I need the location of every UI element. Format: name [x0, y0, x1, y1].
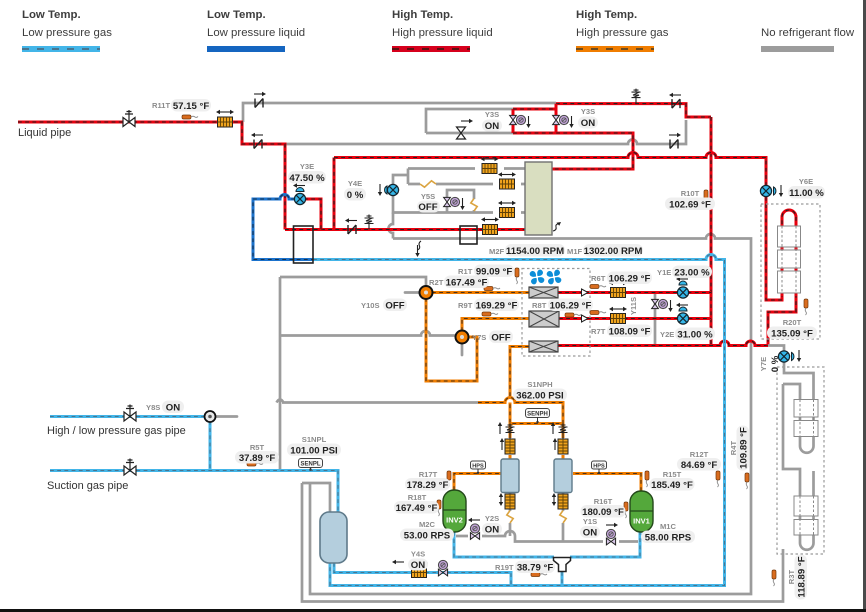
label R12T [677, 450, 721, 471]
oil zigzag at Y5S loop [471, 199, 477, 212]
svg-text:R15T: R15T [663, 470, 682, 479]
pipe: liquid row B (HX2 to manifold) [559, 317, 711, 320]
capillary on liquid main [483, 225, 498, 235]
label S1NPL [287, 435, 341, 457]
svg-text:INV2: INV2 [446, 516, 463, 525]
label R1T [458, 265, 514, 278]
svg-text:S1NPH: S1NPH [527, 380, 552, 389]
check valve on gray second line (arrow right) [670, 140, 678, 149]
svg-text:M2F: M2F [489, 247, 505, 256]
sensor R2T/R9T area: R2T sensor [484, 287, 500, 291]
solenoid Y3S-2 on red vertical x556 [553, 115, 574, 128]
service valve V2 (high/low gas pipe) [124, 405, 136, 422]
svg-text:Y5S: Y5S [421, 192, 435, 201]
wire: subcool line 2 [408, 183, 525, 186]
wire: inner gray box (oil loop) [426, 109, 513, 133]
label Y7S OFF [472, 331, 513, 344]
sensor R9T [482, 312, 498, 316]
pipe: HX3 feed drop to suction header [510, 347, 529, 399]
svg-text:Y7S: Y7S [472, 333, 486, 342]
wire: Y11S bypass between liquid rows [654, 294, 657, 344]
right page border [863, 0, 866, 612]
svg-text:84.69 °F: 84.69 °F [681, 460, 718, 471]
svg-text:57.15 °F: 57.15 °F [173, 101, 210, 112]
svg-text:SENPL: SENPL [300, 462, 320, 468]
pipe: Y3S box verticals and bottom [513, 104, 633, 169]
label Y8S ON [146, 401, 184, 414]
svg-text:ON: ON [166, 403, 180, 414]
oil zigzag below separator 1 [507, 511, 513, 524]
capillary below separator 1 [505, 494, 515, 509]
svg-text:High Temp.: High Temp. [392, 9, 453, 21]
wire: lower coil tubes group1 [783, 384, 814, 453]
svg-text:OFF: OFF [418, 202, 437, 213]
svg-text:R8T: R8T [532, 301, 547, 310]
check valve on liquid main (arrow left) [348, 225, 356, 234]
pipe: Y3E subcool branch [304, 199, 321, 230]
pipe: Y7S up to HX2 [462, 319, 529, 332]
svg-text:M1C: M1C [660, 522, 677, 531]
svg-text:S1NPL: S1NPL [302, 435, 327, 444]
legend item: high temp / high pressure gas [576, 9, 669, 52]
junction fillet on left riser [277, 400, 284, 403]
label Y10S OFF [361, 299, 407, 312]
wire: Y5S bypass loop [447, 190, 474, 213]
label R5T [235, 443, 279, 464]
lower outdoor coil dashed box [777, 367, 824, 554]
solenoid Y2S on oil line [470, 524, 479, 540]
check valve top gray [255, 99, 263, 108]
flow triangle row B [582, 315, 589, 322]
capillary subcool line1 [482, 164, 497, 174]
sensor R4T (rotated) [745, 473, 749, 489]
oil separator 1 [501, 459, 519, 493]
receiver (liquid receiver tall rect) [294, 226, 314, 263]
label R16T [581, 497, 626, 518]
wire: Y7S bottom stub [461, 343, 464, 355]
wire: Y8S junction stub [216, 415, 237, 418]
legend item: high temp / high pressure liquid [392, 9, 493, 52]
capillary subcool line2 [500, 179, 515, 189]
label Y4S ON [408, 550, 428, 572]
pipe: liquid main through receiver to subcooler [285, 228, 525, 231]
label R2T [429, 276, 489, 289]
svg-text:118.89 °F: 118.89 °F [797, 556, 808, 597]
wire: R3T return line from lower coil [302, 483, 783, 602]
sensor R5T [247, 462, 263, 466]
pipe: high/low pressure gas pipe [50, 415, 210, 418]
svg-text:INV1: INV1 [633, 517, 650, 526]
capillary row A [611, 288, 626, 298]
label Y3S-1 [482, 110, 502, 132]
svg-text:R11T: R11T [152, 101, 171, 110]
compressor INV2 [443, 490, 466, 532]
expansion valve Y2E [676, 303, 689, 324]
expansion valve Y3E [293, 183, 306, 204]
label Y6E [788, 177, 825, 199]
label Y5S [417, 192, 440, 213]
svg-text:1154.00 RPM: 1154.00 RPM [506, 246, 564, 257]
pipe: drop to lower header [242, 122, 285, 230]
pipe: strainer drop [561, 572, 564, 586]
expansion valve Y4E [378, 184, 399, 196]
wire: oil return line INV2 [456, 531, 638, 542]
svg-text:Y3S: Y3S [581, 107, 595, 116]
svg-text:23.00 %: 23.00 % [674, 268, 710, 279]
lower coil finned sections group1 [794, 400, 818, 437]
svg-text:No refrigerant flow: No refrigerant flow [761, 27, 855, 39]
lower coil finned sections group2 [794, 496, 818, 535]
svg-text:58.00 RPS: 58.00 RPS [645, 533, 692, 544]
svg-text:106.29 °F: 106.29 °F [550, 301, 592, 312]
svg-text:Y4S: Y4S [411, 550, 425, 559]
svg-text:31.00 %: 31.00 % [677, 330, 713, 341]
heat exchanger HX1 [529, 287, 558, 298]
svg-text:ON: ON [411, 560, 425, 571]
wire: gray suction header to SENPH [282, 401, 478, 404]
label Y3E [288, 162, 326, 184]
label R11T value [152, 99, 211, 112]
oil zigzag below separator 2 [560, 511, 566, 524]
pipe: suction header + SENPH loop [478, 398, 563, 424]
bottom page border [0, 609, 866, 612]
svg-text:R16T: R16T [594, 497, 613, 506]
svg-text:R12T: R12T [690, 450, 709, 459]
legend item: low temp / low pressure gas [22, 9, 112, 52]
svg-text:HPS: HPS [593, 463, 605, 469]
svg-text:R19T: R19T [495, 563, 514, 572]
compressor INV1 [630, 491, 653, 532]
label R18T [394, 493, 439, 514]
pipe: left vertical into liquid main [333, 158, 336, 230]
svg-text:ON: ON [581, 118, 595, 129]
svg-text:Y1E: Y1E [657, 268, 671, 277]
upper coil finned sections [778, 226, 801, 293]
svg-text:High pressure gas: High pressure gas [576, 27, 669, 39]
heat exchanger HX3 [529, 341, 558, 352]
svg-text:0 %: 0 % [347, 190, 364, 201]
svg-text:Liquid pipe: Liquid pipe [18, 127, 71, 139]
label R3T rotated [787, 569, 796, 584]
oil separator 2 [554, 459, 572, 493]
pipe: Y10S to HX1 [432, 291, 529, 294]
svg-text:ON: ON [583, 528, 597, 539]
label R20T [767, 318, 817, 340]
svg-text:Y2S: Y2S [485, 514, 499, 523]
sensor R18T [437, 500, 441, 516]
sensor R8T [565, 313, 581, 317]
capillary on Y4S line [412, 568, 427, 578]
svg-text:R18T: R18T [408, 493, 427, 502]
wire: Y10S left stub [405, 291, 420, 294]
service port on liquid main [365, 215, 374, 230]
accumulator vessel [320, 512, 347, 563]
pipe: liquid row C / bottom red main [558, 341, 768, 346]
label M2F RPM [489, 244, 565, 257]
svg-text:R5T: R5T [250, 443, 265, 452]
svg-text:R17T: R17T [419, 470, 438, 479]
label R7T [591, 325, 652, 338]
check valve on red drop line (arrow left) [254, 140, 262, 149]
svg-text:High pressure liquid: High pressure liquid [392, 27, 493, 39]
sensor R15T [645, 471, 649, 487]
sensor R6T [590, 285, 606, 289]
service port on red top bypass [632, 89, 641, 104]
svg-text:169.29 °F: 169.29 °F [476, 301, 518, 312]
solenoid Y11S [652, 299, 673, 312]
solenoid Y4S on accumulator line [438, 560, 447, 576]
svg-text:SENPH: SENPH [527, 412, 548, 418]
svg-text:Low Temp.: Low Temp. [207, 9, 266, 21]
pipe: connector between gas pipes [209, 421, 212, 471]
sensor R10T [704, 190, 708, 206]
label Y4E [344, 179, 366, 201]
svg-text:Y3S: Y3S [485, 110, 499, 119]
gas shutoff bowtie on inner box bottom [457, 119, 474, 139]
heat exchanger HX2 [529, 311, 559, 327]
label S1NPH [513, 380, 567, 402]
label R17T [405, 470, 450, 491]
service port above separator 1 [506, 424, 515, 439]
capillary subcool line3 [500, 208, 515, 218]
pipe: INV2 discharge [454, 474, 501, 491]
svg-text:Y4E: Y4E [348, 179, 362, 188]
svg-text:185.49 °F: 185.49 °F [651, 480, 693, 491]
svg-text:R6T: R6T [591, 274, 606, 283]
label R9T [458, 299, 519, 312]
wire: Y4E drop across red main [389, 213, 394, 239]
svg-text:R9T: R9T [458, 301, 473, 310]
svg-text:Low Temp.: Low Temp. [22, 9, 81, 21]
check valve on red top bypass (arrow left) [672, 99, 680, 108]
sensor R3T (rotated) [772, 570, 776, 586]
svg-text:M2C: M2C [419, 520, 436, 529]
upper outdoor coil dashed box [761, 204, 820, 339]
sensor R7T [590, 311, 606, 315]
expansion valve Y1E [676, 277, 689, 298]
svg-text:Y3E: Y3E [300, 162, 314, 171]
svg-text:M1F: M1F [567, 247, 583, 256]
svg-text:Y6E: Y6E [799, 177, 813, 186]
pipe: INV1 suction [570, 531, 640, 557]
wire: long gray return under subcooler to right side drop [310, 234, 751, 594]
fan F1 [530, 270, 545, 285]
label R19T [495, 561, 555, 574]
pipe: accumulator outlet / Y4S line [334, 563, 511, 586]
4-way valve Y10S [420, 286, 433, 299]
fan F2 [547, 270, 562, 285]
svg-text:106.29 °F: 106.29 °F [609, 274, 651, 285]
label Y7E rotated [759, 357, 768, 371]
4-way valve Y7S [456, 331, 469, 344]
svg-text:38.79 °F: 38.79 °F [517, 563, 554, 574]
wire: Y4E subcool circuit upper [393, 169, 525, 186]
svg-text:Suction gas pipe: Suction gas pipe [47, 480, 128, 492]
label Y3S-2 [578, 107, 598, 129]
wire: lower coil tubes group2 [783, 516, 814, 553]
label M2C [400, 520, 454, 542]
suction strainer funnel [554, 558, 571, 572]
tag HPS 1 [471, 461, 486, 474]
svg-text:ON: ON [485, 121, 499, 132]
label Y1E [657, 266, 712, 279]
tag SENPL [299, 459, 323, 471]
legend item: low temp / low pressure liquid [207, 9, 305, 52]
pipe: drops to oil separators [510, 424, 563, 460]
wire: separator 1 oil drop [509, 493, 512, 537]
svg-text:Y2E: Y2E [660, 330, 674, 339]
capillary above separator 2 [558, 439, 568, 454]
subcooler plate HX (green) [525, 162, 552, 235]
pipe: Y10S down and over to Y7S [426, 298, 477, 381]
wire: top gray header line [243, 103, 556, 122]
oil zigzag on line2 [420, 181, 436, 187]
sensor R11T [182, 115, 198, 119]
svg-text:Y1S: Y1S [583, 517, 597, 526]
label Y2S ON [482, 514, 502, 536]
svg-text:High / low pressure gas pipe: High / low pressure gas pipe [47, 425, 186, 437]
svg-text:Y7E: Y7E [759, 357, 768, 371]
solenoid Y3S-1 on red vertical x513 [510, 115, 531, 128]
pipe: main discharge header y157.5 [334, 153, 766, 186]
sensor R19T [531, 573, 547, 577]
wire: Y7E branch to lower coil [768, 346, 814, 401]
svg-text:Y8S: Y8S [146, 403, 160, 412]
pipe: INV1 discharge [573, 474, 641, 492]
wire: gray line to Y7S left with jump over orange [280, 331, 456, 336]
pipe: liquid pipe inlet [18, 121, 243, 124]
capillary below separator 2 [558, 494, 568, 509]
label M1C [641, 522, 695, 544]
solenoid Y5S [444, 197, 465, 210]
sensor R16T [624, 502, 628, 518]
pipe: low pressure gas long line [313, 255, 725, 586]
flow triangle row A [582, 289, 589, 296]
svg-text:47.50 %: 47.50 % [289, 173, 325, 184]
service valve V3 (suction pipe) [124, 459, 136, 476]
svg-text:HPS: HPS [472, 463, 484, 469]
capillary above separator 1 [505, 439, 515, 454]
svg-text:167.49 °F: 167.49 °F [396, 503, 438, 514]
label R10T [665, 189, 715, 211]
svg-text:OFF: OFF [385, 301, 404, 312]
label Y1S ON [580, 517, 600, 539]
sensor R12T [716, 471, 720, 487]
junction circle Y8S line [205, 411, 216, 422]
svg-text:Y10S: Y10S [361, 301, 380, 310]
label Y2E [660, 328, 715, 341]
svg-text:High Temp.: High Temp. [576, 9, 637, 21]
pipe: upper coil tubes [782, 210, 796, 296]
svg-text:R2T: R2T [429, 278, 444, 287]
svg-text:R20T: R20T [783, 318, 802, 327]
wire: separator 2 oil drop [562, 493, 565, 542]
svg-text:Low pressure liquid: Low pressure liquid [207, 27, 305, 39]
svg-text:102.69 °F: 102.69 °F [669, 200, 711, 211]
pipe: liquid row A (HX1 to manifold) [558, 291, 711, 294]
pipe: receiver circuit box [253, 195, 313, 260]
wire: gray line to Y10S top [280, 277, 426, 286]
svg-text:0 %: 0 % [770, 355, 781, 372]
wire: subcool line 3 [393, 196, 525, 213]
wire: left gray riser column [279, 277, 282, 469]
label R6T [591, 272, 652, 285]
sensor R20T [804, 299, 808, 315]
sight glass rect on liquid main [460, 226, 477, 244]
svg-text:167.49 °F: 167.49 °F [446, 278, 488, 289]
expansion valve Y7E [778, 350, 801, 362]
svg-text:OFF: OFF [491, 333, 510, 344]
svg-text:Y11S: Y11S [629, 297, 638, 315]
legend item: no refrigerant flow [761, 27, 855, 52]
service valve V1 (liquid pipe) [123, 110, 135, 127]
svg-text:135.09 °F: 135.09 °F [771, 329, 813, 340]
svg-text:Low pressure gas: Low pressure gas [22, 27, 112, 39]
label R4T rotated [729, 440, 738, 455]
svg-text:109.89 °F: 109.89 °F [739, 427, 750, 469]
indoor unit dashed box [522, 269, 590, 357]
pipe: INV2 suction [454, 532, 554, 557]
label R15T [650, 470, 695, 491]
subcooler gas outlet squiggle [553, 224, 559, 232]
svg-text:37.89 °F: 37.89 °F [239, 453, 276, 464]
capillary row B [611, 314, 626, 324]
solenoid Y1S on oil line [606, 529, 615, 545]
label M1F RPM [567, 244, 643, 257]
capillary on liquid inlet [218, 117, 233, 127]
svg-text:R1T: R1T [458, 267, 473, 276]
wire: accumulator top U-bend [302, 483, 330, 512]
tag SENPH [526, 409, 550, 424]
wire: lower coil connector [783, 384, 814, 496]
wire: second gray line with check valve, rises at x686 [285, 120, 686, 144]
svg-text:108.09 °F: 108.09 °F [609, 327, 651, 338]
svg-text:101.00 PSI: 101.00 PSI [290, 446, 338, 457]
expansion valve Y6E [760, 185, 783, 197]
label R8T [532, 299, 593, 312]
svg-text:ON: ON [485, 525, 499, 536]
sensor R1T [515, 268, 519, 284]
sensor R17T [447, 471, 451, 487]
pipe: suction gas pipe to accumulator [50, 471, 338, 513]
svg-text:R7T: R7T [591, 327, 606, 336]
fan wire squiggle under subcool return [418, 241, 422, 250]
pipe: red top bypass (right of x556) [556, 104, 711, 117]
svg-text:178.29 °F: 178.29 °F [407, 480, 449, 491]
pipe: Y6E branch to upper coil [766, 197, 796, 346]
tag HPS 2 [592, 461, 607, 474]
pipe: hot gas manifold vertical [710, 117, 713, 345]
svg-text:R10T: R10T [681, 189, 700, 198]
svg-text:11.00 %: 11.00 % [789, 188, 824, 199]
svg-text:1302.00 RPM: 1302.00 RPM [584, 246, 643, 257]
svg-text:362.00 PSI: 362.00 PSI [516, 391, 564, 402]
svg-text:53.00 RPS: 53.00 RPS [404, 531, 451, 542]
